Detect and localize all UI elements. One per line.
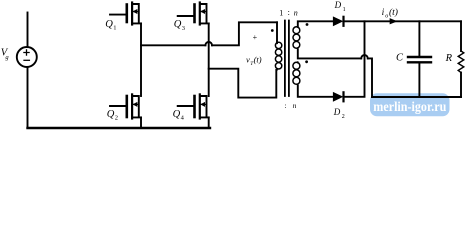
primary polarity dot — [271, 29, 274, 32]
transformer core — [285, 21, 289, 97]
svg-text:n: n — [294, 8, 298, 17]
leg B vertical (Q3 source to Q4 drain) — [208, 23, 210, 96]
resistor R — [458, 21, 464, 97]
svg-text::: : — [284, 101, 286, 110]
svg-text:merlin-igor.ru: merlin-igor.ru — [373, 99, 446, 114]
svg-text:D: D — [334, 0, 342, 10]
svg-text:(t): (t) — [254, 55, 262, 65]
svg-text:D: D — [333, 107, 341, 117]
svg-text:Q: Q — [173, 109, 181, 120]
svg-text:1: 1 — [113, 25, 116, 32]
svg-text:o: o — [385, 13, 388, 19]
label Q3 — [174, 19, 185, 32]
secondary bottom polarity dot — [305, 60, 308, 63]
Q4 source drop to rail — [208, 117, 210, 128]
diode D2 — [333, 92, 343, 101]
transistor Q3 — [178, 3, 209, 25]
svg-text:(t): (t) — [389, 7, 398, 18]
svg-text:+: + — [253, 33, 258, 42]
diode D1 — [333, 17, 343, 26]
label Q2 — [107, 109, 118, 122]
wire B: leg B midpoint to primary bottom — [209, 69, 277, 98]
wire A: leg A midpoint to primary top, hops over leg B — [141, 22, 277, 45]
transistor Q2 — [110, 94, 141, 118]
svg-text:Q: Q — [107, 109, 115, 120]
center tap wire, hops over D2 riser, drops to bottom — [298, 50, 372, 98]
svg-text:Q: Q — [105, 19, 113, 30]
transistor Q4 — [178, 94, 209, 118]
secondary top polarity dot — [306, 23, 309, 26]
svg-text:R: R — [445, 53, 453, 64]
secondary bottom wire to D2 — [298, 86, 334, 97]
label Q4 — [173, 109, 185, 122]
svg-text:3: 3 — [182, 25, 185, 32]
svg-text:2: 2 — [342, 114, 345, 120]
label io(t) — [382, 7, 398, 20]
top output rail — [344, 20, 462, 22]
label vT(t) — [246, 55, 262, 67]
label Q1 — [105, 19, 116, 32]
svg-text:i: i — [382, 8, 385, 18]
svg-text::: : — [288, 8, 290, 17]
svg-text:n: n — [293, 101, 297, 110]
label D1 — [334, 0, 346, 13]
watermark merlin-igor.ru — [370, 93, 450, 116]
io(t) current arrow — [390, 19, 397, 24]
output bottom rail — [372, 96, 461, 98]
svg-text:C: C — [396, 52, 404, 63]
label Vg — [1, 47, 10, 61]
svg-text:2: 2 — [115, 115, 118, 122]
turns ratio label :n bottom — [284, 101, 296, 110]
secondary top wire to D1 — [298, 21, 334, 26]
secondary bottom winding — [293, 62, 300, 86]
transformer primary winding — [275, 42, 281, 70]
D2 output wire and riser to top rail — [344, 21, 365, 97]
transistor Q1 — [110, 3, 141, 25]
svg-text:1: 1 — [343, 7, 346, 13]
Q2 source drop to rail — [140, 117, 142, 128]
secondary top winding — [293, 27, 300, 50]
capacitor C — [408, 21, 431, 97]
svg-text:1: 1 — [279, 8, 283, 17]
bottom rail — [28, 127, 211, 129]
svg-text:Q: Q — [174, 19, 182, 30]
voltage source Vg — [17, 13, 37, 129]
leg A vertical (Q1 source to Q2 drain) — [140, 23, 142, 96]
label D2 — [333, 107, 345, 120]
turns ratio label 1:n top — [279, 8, 298, 17]
